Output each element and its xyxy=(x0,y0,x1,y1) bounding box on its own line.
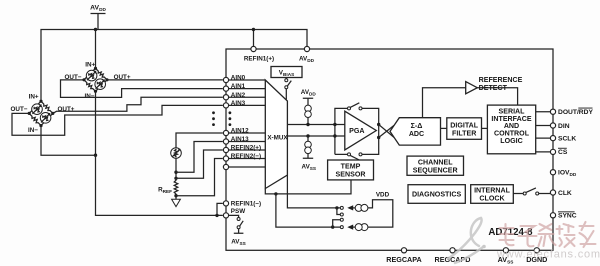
pin AIN0 xyxy=(223,77,228,82)
svg-text:www.elecfans.com: www.elecfans.com xyxy=(496,249,600,261)
bridge B1 strain gauge element upper xyxy=(86,70,97,81)
svg-text:LOGIC: LOGIC xyxy=(500,137,522,145)
wire REFIN1(-) hook xyxy=(217,203,223,215)
wire tap to REFIN2(+) xyxy=(176,150,223,178)
wire xyxy=(353,207,355,209)
pin AVSS xyxy=(503,248,508,253)
node B1 OUT+ xyxy=(105,78,108,81)
internal clock box xyxy=(471,185,514,204)
wire xyxy=(43,115,49,120)
lower blocks xyxy=(265,156,550,231)
pin aux xyxy=(223,164,228,169)
iout switch bank xyxy=(335,206,338,209)
wire ADC to filter xyxy=(441,127,447,129)
node RREF top tap xyxy=(174,177,177,180)
left pins xyxy=(212,75,265,247)
right pins xyxy=(550,108,593,220)
svg-text:DIGITAL: DIGITAL xyxy=(450,121,479,129)
wire xyxy=(97,82,103,87)
node B2 OUT+ xyxy=(51,112,54,115)
bridge B2 (lower load cell) xyxy=(11,93,75,133)
pin DGND xyxy=(534,248,539,253)
wire bridge1 IN+ xyxy=(95,30,97,69)
wire mux out+ xyxy=(287,124,344,126)
switch contact xyxy=(348,153,351,156)
ADC sigma-delta xyxy=(390,118,441,145)
wire RTD bottom xyxy=(175,158,177,178)
wire xyxy=(350,155,359,160)
switch contact xyxy=(285,86,288,89)
svg-text:SYNC: SYNC xyxy=(558,213,577,220)
current source burnout bottom xyxy=(305,141,312,148)
junction xyxy=(229,117,232,120)
switch contact xyxy=(340,218,343,221)
pin REGCAPD xyxy=(450,248,455,253)
wire xyxy=(240,221,244,226)
switch contact xyxy=(340,206,343,209)
bridge B2 resistor arm IN+ to OUT+ xyxy=(41,101,53,113)
pin AIN13 xyxy=(223,139,228,144)
RTD arrow xyxy=(172,149,179,156)
VBIAS box xyxy=(271,67,302,78)
bottom pins xyxy=(386,248,547,265)
junction xyxy=(377,136,380,139)
svg-text:INTERNAL: INTERNAL xyxy=(474,186,511,194)
svg-text:SCLK: SCLK xyxy=(558,135,576,142)
wire xyxy=(307,136,309,141)
bridge B1 (upper load cell) xyxy=(65,61,131,100)
node B2 OUT- xyxy=(28,112,31,115)
pin AIN3 xyxy=(223,103,228,108)
serial interface box xyxy=(487,105,535,154)
wire bridge2 OUT- to AIN3 xyxy=(12,105,223,135)
svg-text:DIN: DIN xyxy=(558,123,570,130)
pin PSW xyxy=(223,213,228,218)
wire mux out- xyxy=(287,135,344,137)
svg-text:PSW: PSW xyxy=(231,208,245,215)
svg-text:SEQUENCER: SEQUENCER xyxy=(413,167,458,175)
wire iout1 xyxy=(287,175,340,208)
svg-text:AIN0: AIN0 xyxy=(231,75,246,82)
switch PSW to AVSS xyxy=(229,215,239,217)
ground symbol triangle xyxy=(172,199,181,206)
arrowhead xyxy=(47,113,50,116)
wire xyxy=(89,73,95,78)
RTD sensor xyxy=(171,148,182,159)
ADC / filter / refdetect / serial xyxy=(390,76,550,154)
bridge B2 resistor arm IN+ to OUT- xyxy=(29,101,41,113)
pin AIN1 xyxy=(223,86,228,91)
wire xyxy=(471,218,481,246)
bridge B2 gauge arrow lower xyxy=(41,114,50,123)
junction xyxy=(212,123,215,126)
ground xyxy=(175,196,177,199)
svg-text:IN−: IN− xyxy=(85,93,95,100)
dots ellipsis outside xyxy=(212,111,215,114)
wire bridge1 OUT- to AIN1 xyxy=(61,80,223,98)
wire RTD to AIN12 xyxy=(176,133,223,148)
wire AVDD rail xyxy=(41,30,307,102)
watermark xyxy=(447,218,600,263)
wire xyxy=(580,222,596,247)
svg-text:AIN1: AIN1 xyxy=(231,83,246,90)
wire iout2 xyxy=(276,194,340,227)
wire xyxy=(350,103,359,108)
current source burnout top b xyxy=(305,111,312,118)
box xyxy=(578,107,592,110)
pin DIN xyxy=(550,123,555,128)
wire xyxy=(539,224,556,246)
burnout current AVSS xyxy=(306,134,309,137)
pin REFIN1(-) xyxy=(223,201,228,206)
switch contact xyxy=(359,107,362,110)
svg-text:REFIN2(+): REFIN2(+) xyxy=(231,145,261,152)
current source IOUT0 b xyxy=(361,204,368,211)
wire bridge1 OUT+ to AIN0 xyxy=(107,79,223,81)
svg-text:REFIN1(+): REFIN1(+) xyxy=(244,56,274,63)
chopper network around PGA xyxy=(335,108,379,154)
svg-text:X-MUX: X-MUX xyxy=(267,135,288,142)
current source IOUT0 xyxy=(347,205,353,210)
wire chop cross xyxy=(379,125,394,138)
bridge B1 resistor arm OUT- to IN- xyxy=(84,80,96,92)
wires serial to pins xyxy=(536,112,551,152)
VBIAS box xyxy=(271,67,302,100)
wire xyxy=(307,118,309,125)
junction xyxy=(212,117,215,120)
pin AVDD xyxy=(304,46,309,51)
wire xyxy=(539,193,551,195)
arrowhead xyxy=(347,225,353,230)
svg-text:PGA: PGA xyxy=(349,127,364,135)
svg-text:Σ-Δ: Σ-Δ xyxy=(411,122,423,130)
pin SCLK xyxy=(550,136,555,141)
wire xyxy=(519,226,537,246)
svg-text:IN−: IN− xyxy=(28,127,38,134)
switch CLK xyxy=(523,192,526,195)
RTD zigzag element xyxy=(175,149,178,157)
bridge B1 resistor arm IN+ to OUT- xyxy=(84,68,96,80)
center section: PGA, choppers, burnout xyxy=(287,89,394,171)
X-MUX trapezoid xyxy=(265,80,287,189)
wire tap to REFIN2(-) xyxy=(176,159,223,196)
wire REFIN1(+) drop xyxy=(253,30,255,47)
switch contact xyxy=(536,192,539,195)
pin REFIN1(+) xyxy=(251,46,256,51)
pin AIN2 xyxy=(223,95,228,100)
RTD branch xyxy=(158,133,223,207)
pin CS xyxy=(550,149,555,154)
svg-text:FILTER: FILTER xyxy=(452,129,476,137)
switch contact xyxy=(359,153,362,156)
bridge B2 strain gauge element lower xyxy=(40,113,51,124)
pin CLK xyxy=(550,190,555,195)
wire xyxy=(333,208,341,227)
switch contact xyxy=(237,226,240,229)
pin REFIN2(-) xyxy=(223,156,228,161)
svg-text:CLOCK: CLOCK xyxy=(479,194,505,202)
switch contact xyxy=(340,213,343,216)
switch contact xyxy=(285,79,288,82)
bridge B2 resistor arm OUT+ to IN- xyxy=(41,113,53,125)
diagnostics box xyxy=(408,185,465,204)
wire xyxy=(500,224,514,245)
chip AD7124-8 outline xyxy=(226,49,553,250)
top pins xyxy=(244,46,315,63)
node B1 IN- xyxy=(94,90,97,93)
bridge B1 gauge arrow upper xyxy=(87,71,96,80)
arrowhead xyxy=(39,104,42,107)
wire xyxy=(234,229,244,233)
node rail-bridge1 xyxy=(94,28,97,31)
arrowhead xyxy=(178,149,180,151)
wire xyxy=(303,98,313,105)
wire IN- net to PSW xyxy=(96,155,223,215)
box xyxy=(558,210,575,213)
bridge B2 gauge arrow upper xyxy=(32,105,41,114)
wire bridge1 IN- to node xyxy=(95,91,97,155)
pin AIN12 xyxy=(223,130,228,135)
wires mux input stubs xyxy=(229,80,266,167)
svg-text:DOUT/RDY: DOUT/RDY xyxy=(558,109,593,116)
wire xyxy=(455,247,483,263)
wire bridge2 IN- to node xyxy=(41,126,96,156)
bridge B1 gauge arrow lower xyxy=(96,80,105,89)
switch contact xyxy=(348,107,351,110)
svg-text:CHANNEL: CHANNEL xyxy=(418,159,453,167)
node B1 IN+ xyxy=(94,67,97,70)
svg-text:TEMP: TEMP xyxy=(341,162,361,170)
pin IOVDD xyxy=(550,170,555,175)
bridge B2 strain gauge element upper xyxy=(32,104,43,115)
svg-text:SENSOR: SENSOR xyxy=(336,170,366,178)
node rail-refin1 xyxy=(252,28,255,31)
svg-text:IN+: IN+ xyxy=(85,61,95,68)
svg-text:REFIN2(−): REFIN2(−) xyxy=(231,153,261,160)
box xyxy=(558,147,567,150)
switch contact xyxy=(237,218,240,221)
wire bridge2 OUT+ to AIN2 xyxy=(53,97,223,113)
bridge B2 resistor arm OUT- to IN- xyxy=(29,113,41,125)
svg-text:AIN12: AIN12 xyxy=(231,128,249,135)
node wireC-A xyxy=(274,192,277,195)
svg-text:DIAGNOSTICS: DIAGNOSTICS xyxy=(412,191,462,199)
node PSW junction xyxy=(215,214,218,217)
svg-text:CS: CS xyxy=(558,149,568,156)
wire xyxy=(353,226,355,228)
power AVDD top xyxy=(90,5,106,30)
current source IOUT0 xyxy=(355,204,362,211)
node B1 OUT- xyxy=(82,78,85,81)
wire xyxy=(34,107,40,112)
node RTD-AIN13 tap xyxy=(174,171,177,174)
wire xyxy=(303,154,313,159)
junction xyxy=(333,123,336,126)
wire tap to AIN13 xyxy=(176,142,223,173)
arrowhead xyxy=(93,71,96,74)
current source IOUT1 b xyxy=(355,224,362,231)
resistor RREF xyxy=(174,178,178,196)
bridge B1 resistor arm IN+ to OUT+ xyxy=(96,68,108,80)
svg-text:AIN13: AIN13 xyxy=(231,136,249,143)
wire internal clock to switch xyxy=(513,193,523,195)
wire xyxy=(557,224,575,247)
wire xyxy=(449,218,482,258)
wire filter to serial xyxy=(482,127,488,129)
digital filter box xyxy=(447,118,482,140)
svg-text:ADC: ADC xyxy=(409,130,424,138)
bridge B1 strain gauge element lower xyxy=(95,79,106,90)
wire xyxy=(526,188,536,193)
current source burnout top xyxy=(305,105,312,112)
temp sensor box xyxy=(328,160,374,180)
node IN- join xyxy=(94,154,97,157)
svg-text:VDD: VDD xyxy=(376,192,390,199)
svg-text:REFIN1(−): REFIN1(−) xyxy=(231,201,261,208)
node B2 IN- xyxy=(39,124,42,127)
ref detect amp xyxy=(466,82,478,94)
channel sequencer box xyxy=(407,156,464,175)
wire ADC to ref detect xyxy=(423,88,466,118)
X-MUX xyxy=(265,80,288,189)
dots ellipsis inside xyxy=(229,111,232,114)
junction xyxy=(331,225,334,228)
pin REFIN2(+) xyxy=(223,147,228,152)
junction xyxy=(377,123,380,126)
node B2 IN+ xyxy=(39,100,42,103)
svg-text:REFERENCE: REFERENCE xyxy=(479,76,523,84)
svg-text:AIN3: AIN3 xyxy=(231,100,246,107)
pin DOUT/RDY xyxy=(550,109,555,114)
wire xyxy=(287,81,291,87)
wire xyxy=(368,200,393,227)
switch contact xyxy=(340,226,343,229)
pin REGCAPA xyxy=(401,248,406,253)
node RREF bottom tap xyxy=(174,194,177,197)
junction xyxy=(229,123,232,126)
switch VBIAS xyxy=(285,78,287,100)
junction xyxy=(333,134,336,137)
wire xyxy=(91,14,106,30)
arrowhead xyxy=(102,79,105,82)
wire refdetect to serial xyxy=(477,88,517,105)
svg-text:DETECT: DETECT xyxy=(479,84,508,92)
pin SYNC xyxy=(550,213,555,218)
wire temp sensor to mux xyxy=(265,180,351,194)
node burnout-wire1 xyxy=(306,123,309,126)
bridge B1 resistor arm OUT+ to IN- xyxy=(96,80,108,92)
op-amp PGA xyxy=(345,111,377,150)
svg-text:CLK: CLK xyxy=(558,190,572,197)
svg-text:IN+: IN+ xyxy=(29,93,39,100)
svg-text:REGCAPA: REGCAPA xyxy=(386,255,421,264)
svg-text:OUT−: OUT− xyxy=(11,106,28,113)
current source burnout bottom b xyxy=(305,147,312,154)
current source IOUT1 xyxy=(361,224,368,231)
svg-text:AIN2: AIN2 xyxy=(231,92,246,99)
